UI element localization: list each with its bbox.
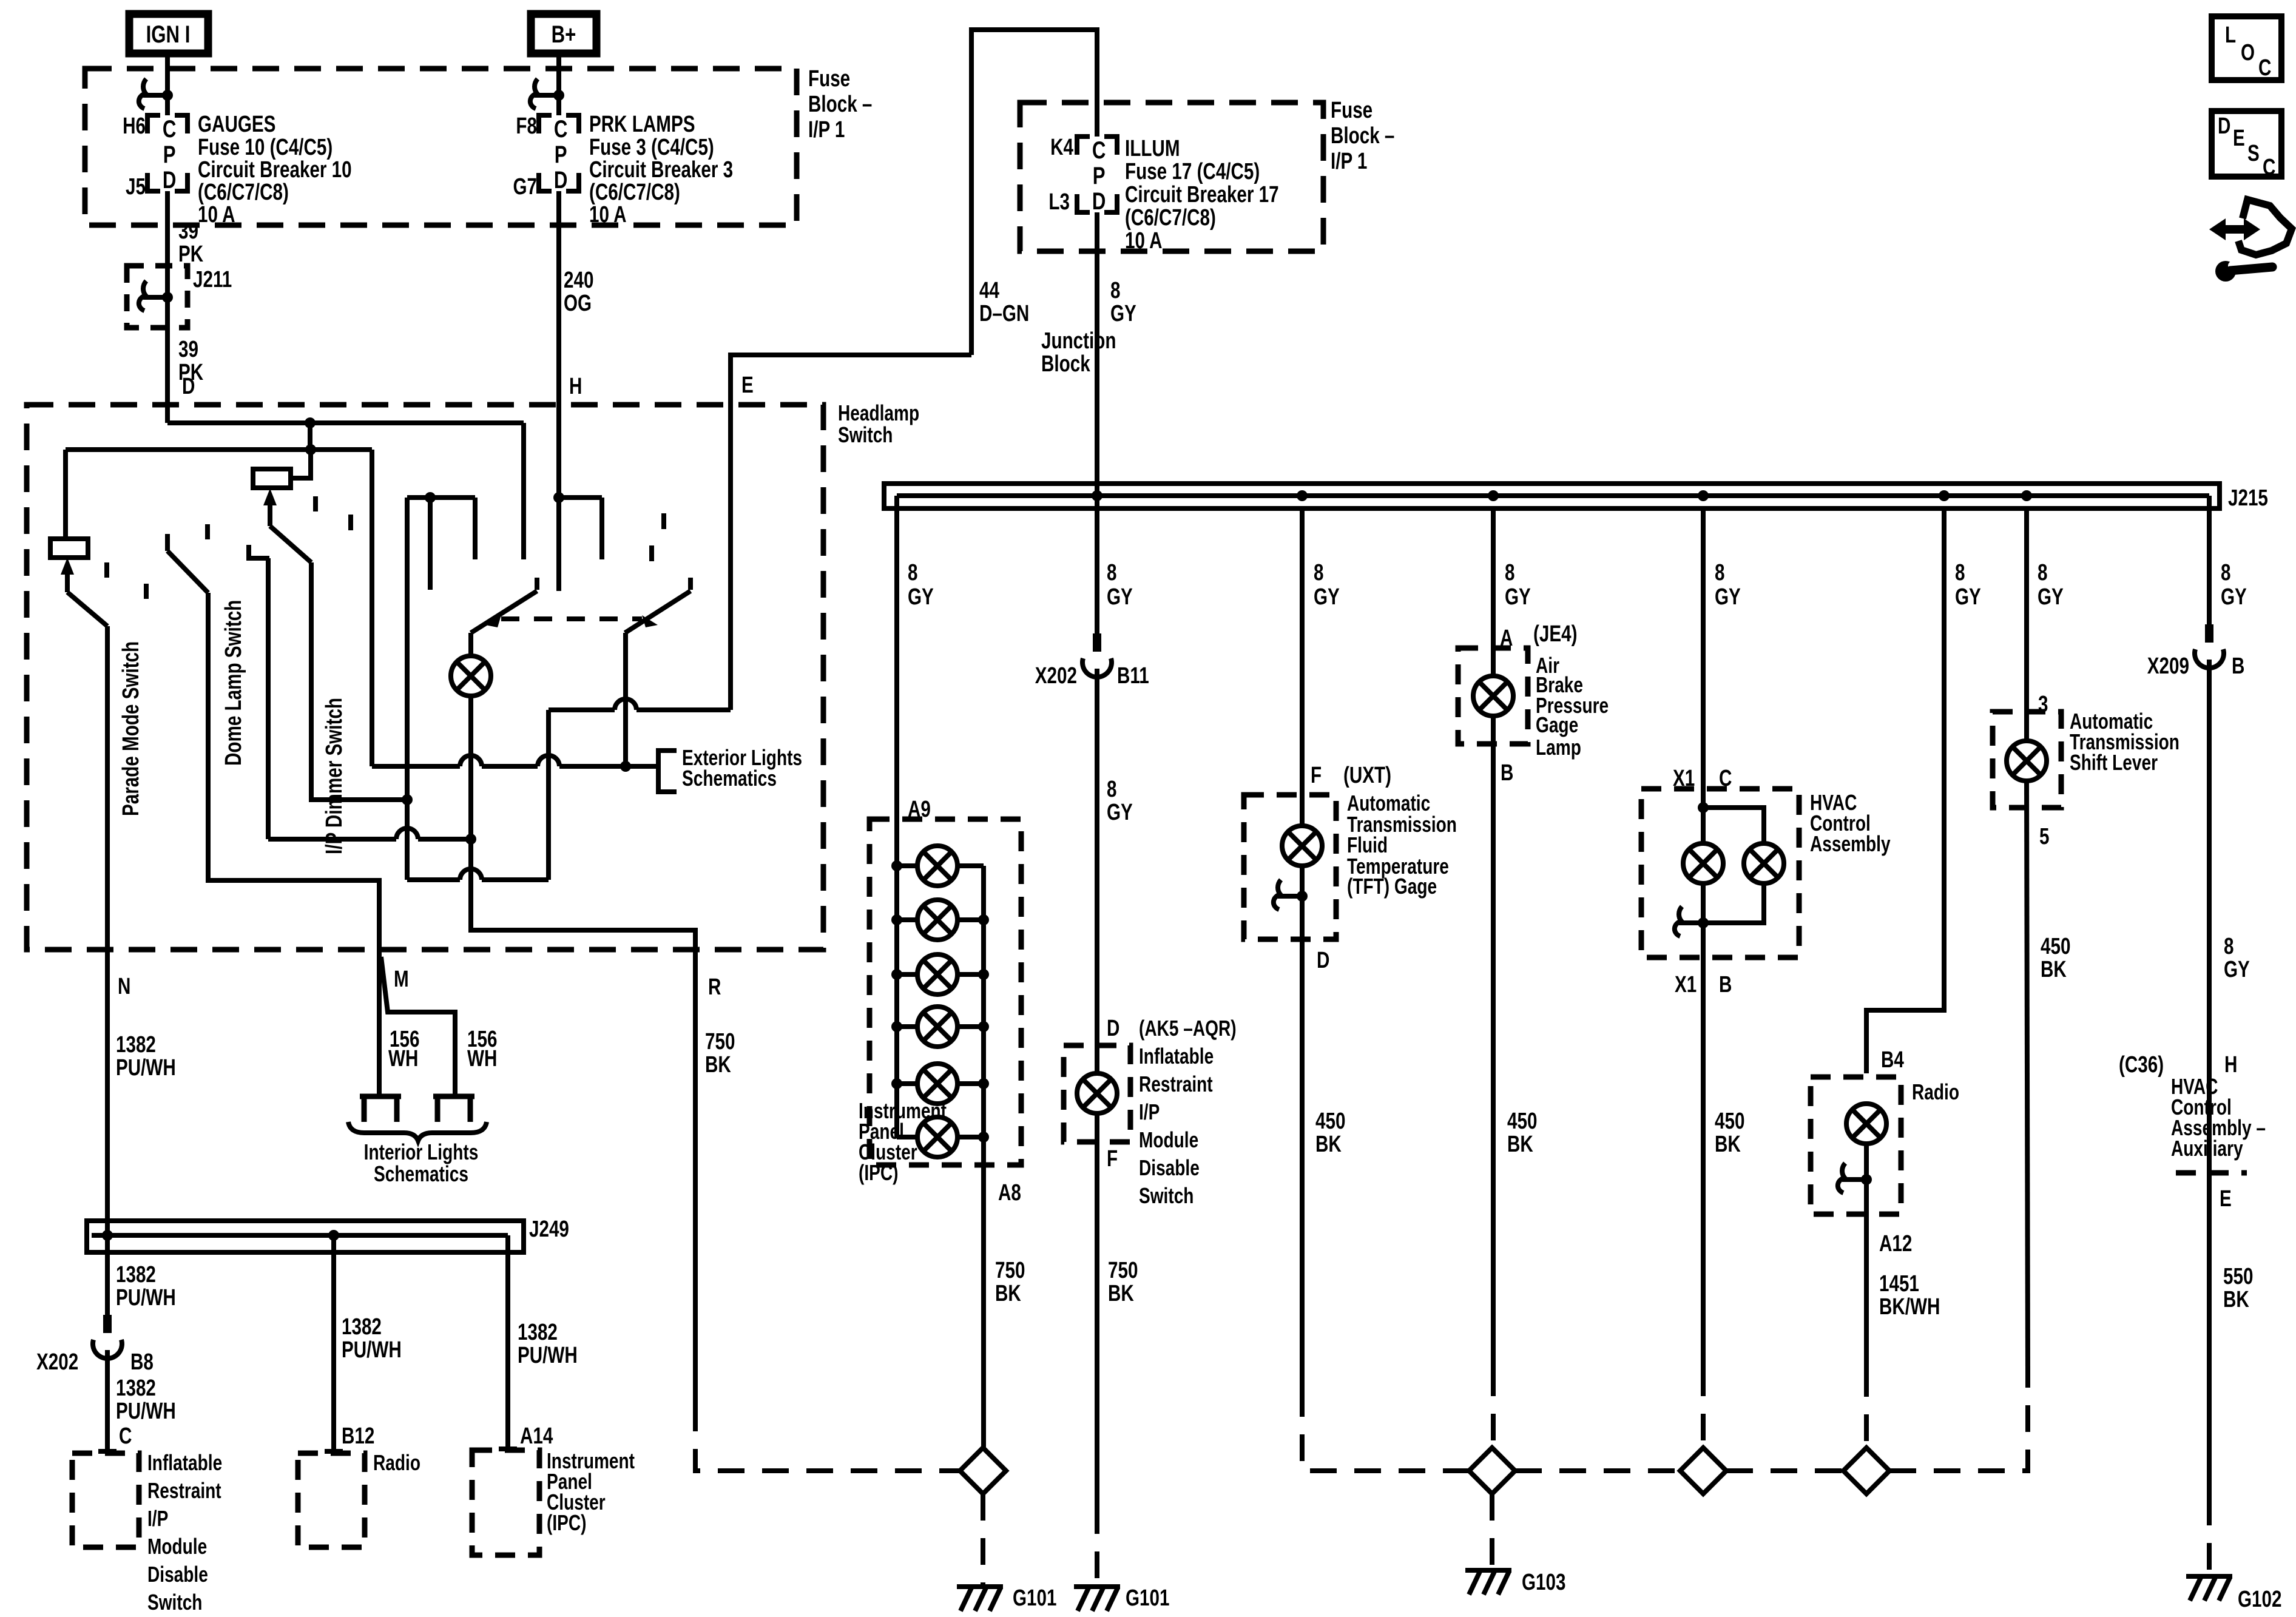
- svg-text:Schematics: Schematics: [374, 1162, 468, 1186]
- label 8 GY drop4: [1505, 560, 1531, 610]
- fuse ILLUM C/P/D terminals: [1077, 137, 1117, 215]
- breaker symbol radio: [1838, 1163, 1872, 1193]
- svg-text:PU/WH: PU/WH: [116, 1399, 176, 1424]
- parade wiper arrow: [61, 558, 107, 626]
- svg-text:Gage: Gage: [1536, 713, 1578, 737]
- wire shift lamp down: [2027, 781, 2028, 1370]
- svg-text:B: B: [1719, 972, 1732, 998]
- wire HVAC right lamp down: [1703, 883, 1764, 923]
- svg-text:BK: BK: [2041, 957, 2067, 982]
- svg-text:PRK LAMPS: PRK LAMPS: [589, 112, 695, 137]
- svg-text:X1: X1: [1675, 972, 1697, 998]
- svg-text:1382: 1382: [116, 1376, 156, 1401]
- svg-text:450: 450: [1315, 1109, 1345, 1134]
- svg-text:Disable: Disable: [1139, 1156, 1200, 1180]
- wire TFT dashed to splice: [1302, 1390, 1469, 1471]
- label 750 BK A8: [995, 1258, 1025, 1306]
- label 450 BK HVAC: [1715, 1109, 1744, 1157]
- icon repair arrow and wrench: [2209, 200, 2292, 282]
- label 8 GY drop5: [1715, 560, 1741, 610]
- label 1451 BK/WH: [1879, 1271, 1940, 1320]
- TFT gage box: [1244, 795, 1336, 939]
- svg-text:GY: GY: [1505, 584, 1531, 610]
- lamp shift lever: [2007, 741, 2047, 781]
- wire shift lever drop: [2024, 508, 2029, 741]
- label 8 GY drop1: [908, 560, 934, 610]
- label ILLUM fuse: [1125, 136, 1279, 254]
- dashed link HVAC splice to radio splice: [1726, 1468, 1843, 1473]
- svg-text:GY: GY: [908, 584, 934, 610]
- splice diamond G101: [960, 1448, 1006, 1494]
- wire TFT drop: [1300, 508, 1305, 826]
- svg-text:Disable: Disable: [147, 1562, 208, 1587]
- svg-text:BK: BK: [995, 1281, 1021, 1306]
- node rail junction: [305, 444, 316, 455]
- svg-text:GY: GY: [1955, 584, 1981, 610]
- label 8 GY drop2: [1107, 560, 1133, 610]
- svg-text:Restraint: Restraint: [1139, 1072, 1213, 1096]
- svg-text:D: D: [2218, 113, 2230, 139]
- svg-text:Module: Module: [147, 1534, 207, 1559]
- wire 44 D-GN to headlamp E: [731, 355, 971, 710]
- breaker symbol in J211: [139, 281, 173, 311]
- svg-text:I/P: I/P: [147, 1507, 168, 1531]
- svg-text:PU/WH: PU/WH: [518, 1343, 578, 1368]
- wire parade feed: [63, 450, 68, 539]
- label Inflatable Restraint I/P Module Disable Switch: [147, 1451, 222, 1615]
- lamp disable switch: [1077, 1073, 1117, 1113]
- power terminal IGN I: [129, 14, 208, 53]
- wire TFT lamp to D: [1300, 866, 1305, 1390]
- wire junction drop: [308, 423, 312, 450]
- svg-text:750: 750: [1108, 1258, 1138, 1283]
- LOC legend box: [2212, 16, 2281, 81]
- svg-text:G102: G102: [2238, 1587, 2281, 1612]
- label 450 BK air brake: [1507, 1109, 1537, 1157]
- svg-text:BK: BK: [1108, 1281, 1134, 1306]
- lamp IPC 6: [897, 1117, 989, 1157]
- label Automatic Transmission Shift Lever: [2070, 709, 2180, 775]
- ground G101 left: [957, 1585, 1056, 1611]
- connector J211: [127, 266, 232, 328]
- label Fuse Block - I/P 1 second: [1331, 98, 1394, 174]
- mechanical linkage dashed: [501, 616, 642, 621]
- svg-text:G101: G101: [1013, 1585, 1056, 1611]
- svg-text:Fuse 17 (C4/C5): Fuse 17 (C4/C5): [1125, 159, 1260, 184]
- label 8 GY B11: [1107, 777, 1133, 825]
- label 8 GY drop7: [2038, 560, 2064, 610]
- connector X202 B11: [1035, 633, 1149, 689]
- svg-text:450: 450: [2041, 934, 2070, 959]
- node N on J249: [102, 1230, 113, 1241]
- headlamp switch dashed box: [27, 405, 823, 950]
- svg-text:E: E: [2233, 126, 2245, 151]
- brace interior lights: [348, 1122, 487, 1141]
- svg-text:Assembly: Assembly: [1810, 832, 1891, 856]
- svg-text:Module: Module: [1139, 1128, 1198, 1152]
- wire radio lamp down: [1864, 1144, 1869, 1370]
- lamp HVAC left: [1683, 843, 1723, 883]
- svg-text:IGN I: IGN I: [146, 21, 191, 48]
- fuse block I/P 1 dashed box: [85, 69, 797, 225]
- label Headlamp Switch: [838, 401, 919, 447]
- dashed link radio splice to shift corner: [1889, 1370, 2028, 1471]
- svg-text:8: 8: [2221, 560, 2230, 586]
- wire second rail: [66, 447, 372, 452]
- linkage arrowheads: [485, 615, 658, 627]
- dashed link splice G103 to HVAC splice: [1515, 1468, 1680, 1473]
- svg-text:L: L: [2225, 22, 2236, 48]
- label 8 GY drop8: [2221, 560, 2247, 610]
- svg-text:B4: B4: [1881, 1047, 1904, 1073]
- lamp headlamp switch illumination: [451, 656, 491, 696]
- svg-text:H6: H6: [123, 113, 146, 139]
- wire A line to exterior lights: [372, 450, 656, 772]
- linkage dashes: [107, 496, 664, 599]
- radio box bottom left: [298, 1453, 365, 1547]
- svg-text:Parade Mode Switch: Parade Mode Switch: [118, 641, 144, 816]
- svg-text:L3: L3: [1048, 189, 1070, 215]
- svg-text:PU/WH: PU/WH: [116, 1055, 176, 1081]
- svg-text:8: 8: [908, 560, 917, 586]
- wire air brake drop: [1491, 508, 1496, 676]
- svg-text:Block –: Block –: [1331, 123, 1394, 149]
- splice diamond HVAC: [1680, 1448, 1726, 1494]
- svg-text:X202: X202: [1035, 663, 1077, 689]
- fuse PRK LAMPS C/P/D terminals: [539, 115, 579, 194]
- svg-text:8: 8: [1107, 560, 1116, 586]
- label 450 BK TFT: [1315, 1109, 1345, 1157]
- svg-text:BK: BK: [1315, 1132, 1342, 1157]
- svg-text:(IPC): (IPC): [859, 1161, 898, 1185]
- splice diamond G103: [1469, 1448, 1515, 1494]
- svg-text:X202: X202: [36, 1349, 78, 1375]
- svg-text:(TFT) Gage: (TFT) Gage: [1347, 874, 1437, 899]
- terminal tick A14: [499, 1447, 517, 1451]
- wire X202 B11 drop: [1095, 508, 1099, 633]
- svg-text:Fuse: Fuse: [1331, 98, 1373, 123]
- svg-text:8: 8: [1505, 560, 1514, 586]
- svg-text:PU/WH: PU/WH: [116, 1285, 176, 1311]
- svg-text:H: H: [2224, 1052, 2237, 1078]
- svg-text:Auxiliary: Auxiliary: [2171, 1136, 2243, 1161]
- svg-text:(C36): (C36): [2119, 1052, 2164, 1078]
- label 1382 PU/WH N upper: [116, 1032, 176, 1081]
- svg-text:M: M: [394, 967, 409, 992]
- svg-text:A8: A8: [998, 1180, 1021, 1206]
- svg-text:F8: F8: [516, 113, 537, 139]
- wire F dashed to ground: [1095, 1507, 1099, 1587]
- label 8 GY drop6: [1955, 560, 1981, 610]
- svg-text:F: F: [1107, 1146, 1118, 1172]
- svg-text:GY: GY: [1715, 584, 1741, 610]
- wire dimmer wiper drop: [311, 562, 407, 800]
- label 240 OG: [564, 268, 593, 316]
- wire radio drop with jog: [1866, 508, 1944, 1073]
- svg-text:Fuse: Fuse: [808, 66, 850, 92]
- wire D contact drop: [521, 423, 526, 559]
- terminal tick B12: [325, 1449, 343, 1454]
- wire M branch to interior lights: [381, 957, 455, 1096]
- svg-text:(UXT): (UXT): [1343, 763, 1391, 788]
- svg-text:Radio: Radio: [373, 1451, 420, 1475]
- svg-text:I/P 1: I/P 1: [808, 117, 845, 143]
- wire B line: [405, 498, 410, 880]
- svg-text:J249: J249: [529, 1217, 569, 1242]
- svg-text:B: B: [1501, 760, 1513, 786]
- svg-text:BK: BK: [705, 1052, 731, 1078]
- connector interior lights left: [360, 1096, 401, 1122]
- label 44 D-GN: [979, 278, 1029, 326]
- off-page bracket exterior lights: [658, 751, 677, 792]
- label 550 BK: [2223, 1264, 2253, 1312]
- lamp radio: [1846, 1104, 1886, 1144]
- svg-text:G103: G103: [1522, 1570, 1565, 1595]
- wire X209 to HVAC aux: [2207, 660, 2212, 1173]
- svg-text:450: 450: [1715, 1109, 1744, 1134]
- breaker symbol TFT: [1274, 880, 1308, 910]
- wire B12 drop: [331, 1235, 336, 1451]
- ground G103: [1465, 1570, 1565, 1595]
- radio box: [1811, 1077, 1901, 1214]
- dome lamp contact: [249, 545, 269, 558]
- terminal tick C: [98, 1449, 116, 1454]
- fuse GAUGES C/P/D terminals: [147, 115, 187, 194]
- ground G102: [2186, 1576, 2281, 1612]
- wire HVAC right branch: [1703, 808, 1764, 843]
- wire N drop: [105, 626, 110, 1315]
- wire B11 to disable switch: [1095, 669, 1099, 1073]
- wire dashed to ground G102: [2207, 1499, 2212, 1576]
- svg-text:BK: BK: [2223, 1287, 2249, 1312]
- svg-text:B+: B+: [552, 21, 576, 48]
- svg-text:B11: B11: [1117, 663, 1149, 689]
- wire IPC A9 drop: [894, 496, 899, 1137]
- svg-text:1382: 1382: [116, 1262, 156, 1288]
- svg-text:G7: G7: [513, 174, 537, 200]
- svg-text:Lamp: Lamp: [1536, 735, 1581, 760]
- lamp IPC 3: [891, 954, 989, 994]
- wire F to ground: [1095, 1113, 1099, 1507]
- svg-text:(IPC): (IPC): [547, 1511, 586, 1535]
- svg-text:O: O: [2241, 40, 2255, 66]
- svg-text:Junction: Junction: [1041, 328, 1116, 354]
- label Interior Lights Schematics: [364, 1140, 479, 1186]
- wire splice to ground G103: [1490, 1494, 1494, 1570]
- svg-text:8: 8: [1955, 560, 1965, 586]
- svg-text:Radio: Radio: [1912, 1080, 1959, 1104]
- inflatable restraint disable switch box mid: [1064, 1045, 1130, 1142]
- lamp IPC 4: [891, 1007, 989, 1047]
- label 39 PK lower: [178, 337, 204, 385]
- label 1382 PU/WH N lower: [116, 1262, 176, 1311]
- svg-text:B12: B12: [342, 1423, 374, 1449]
- label R 750 BK: [705, 1029, 735, 1078]
- svg-text:450: 450: [1507, 1109, 1537, 1134]
- dimmer wiper arrow: [263, 488, 311, 562]
- wire X209 drop: [2207, 496, 2212, 624]
- svg-text:1382: 1382: [116, 1032, 156, 1058]
- svg-text:K4: K4: [1050, 135, 1073, 160]
- svg-text:PK: PK: [178, 241, 204, 267]
- label (AK5 -AQR) Inflatable Restraint I/P Module Disable Switch: [1139, 1016, 1237, 1208]
- svg-text:WH: WH: [467, 1046, 497, 1072]
- svg-text:H: H: [569, 374, 582, 399]
- wire dome lamp right: [266, 558, 271, 839]
- shift lever box: [1993, 712, 2061, 808]
- svg-text:8: 8: [2038, 560, 2047, 586]
- label PRK LAMPS fuse: [589, 112, 733, 228]
- lamp IPC 5: [891, 1064, 989, 1104]
- svg-text:R: R: [708, 974, 721, 1000]
- lamp IPC 1: [891, 846, 984, 886]
- wire 550 BK: [2207, 1173, 2212, 1499]
- svg-text:Dome Lamp Switch: Dome Lamp Switch: [221, 600, 246, 766]
- svg-text:D: D: [1317, 948, 1329, 973]
- svg-text:8: 8: [1107, 777, 1116, 802]
- ground G101 right: [1074, 1585, 1169, 1611]
- wire HVAC drop: [1701, 508, 1706, 843]
- terminal X1 C HVAC: [1673, 766, 1732, 791]
- svg-text:BK: BK: [1715, 1132, 1741, 1157]
- svg-text:5: 5: [2039, 824, 2049, 849]
- breaker symbol HVAC: [1675, 906, 1709, 936]
- svg-text:A12: A12: [1879, 1231, 1912, 1257]
- resistor I/P dimmer: [253, 469, 291, 488]
- svg-text:44: 44: [979, 278, 999, 303]
- svg-text:8: 8: [2224, 934, 2234, 959]
- node D junction: [305, 417, 316, 428]
- svg-text:C: C: [119, 1423, 132, 1449]
- label Junction Block: [1041, 328, 1116, 377]
- label 8 GY drop3: [1314, 560, 1340, 610]
- svg-text:Switch: Switch: [147, 1590, 202, 1615]
- wire dome right to lamp node with hop: [268, 828, 476, 845]
- label Instrument Panel Cluster IPC: [547, 1449, 635, 1535]
- label Instrument Panel Cluster (IPC): [859, 1099, 947, 1185]
- svg-text:Switch: Switch: [1139, 1184, 1194, 1208]
- svg-text:GY: GY: [2224, 957, 2250, 982]
- svg-text:C: C: [2263, 155, 2275, 180]
- svg-text:S: S: [2247, 141, 2260, 166]
- label 750 BK F: [1108, 1258, 1138, 1306]
- svg-text:8: 8: [1715, 560, 1724, 586]
- wire 240 OG: [556, 191, 561, 498]
- label 1382 PU/WH C: [116, 1376, 176, 1424]
- svg-text:GY: GY: [1107, 800, 1133, 825]
- svg-text:GY: GY: [1107, 584, 1133, 610]
- svg-text:D: D: [182, 374, 195, 399]
- bus J215: [884, 484, 2268, 511]
- instrument panel cluster IPC box: [869, 819, 1021, 1165]
- wire splice to ground G101: [981, 1494, 985, 1587]
- svg-text:Block –: Block –: [808, 92, 872, 117]
- svg-text:Interior Lights: Interior Lights: [364, 1140, 479, 1164]
- bus J249: [87, 1217, 569, 1252]
- lamp air brake: [1473, 676, 1513, 716]
- svg-text:8: 8: [1110, 278, 1120, 303]
- svg-text:WH: WH: [388, 1046, 418, 1072]
- svg-text:J5: J5: [126, 174, 146, 200]
- svg-text:I/P 1: I/P 1: [1331, 149, 1367, 174]
- svg-text:GY: GY: [2038, 584, 2064, 610]
- DESC legend box: [2212, 111, 2281, 180]
- svg-text:Headlamp: Headlamp: [838, 401, 919, 425]
- node dimmer to B line: [402, 794, 413, 805]
- svg-text:X209: X209: [2147, 653, 2189, 679]
- air brake pressure gage lamp box: [1458, 648, 1528, 744]
- svg-text:Inflatable: Inflatable: [1139, 1044, 1214, 1068]
- circuit breaker symbol F8: [530, 79, 564, 109]
- svg-text:550: 550: [2223, 1264, 2253, 1289]
- wire A14 drop: [505, 1235, 510, 1449]
- label HVAC Control Assembly Auxiliary: [2171, 1075, 2266, 1161]
- svg-text:(AK5 –AQR): (AK5 –AQR): [1139, 1016, 1237, 1041]
- label 8 GY aux: [2224, 934, 2250, 982]
- wire 8 GY from ILLUM fuse to junction block: [1095, 212, 1099, 633]
- svg-text:750: 750: [995, 1258, 1025, 1283]
- label 8 GY: [1110, 278, 1136, 326]
- splice diamond radio: [1843, 1448, 1889, 1494]
- label Fuse Block - I/P 1: [808, 66, 872, 143]
- svg-text:Restraint: Restraint: [147, 1479, 221, 1503]
- label 1382 PU/WH B12: [342, 1314, 402, 1363]
- instrument panel cluster box bottom: [472, 1450, 539, 1555]
- svg-text:BK/WH: BK/WH: [1879, 1294, 1940, 1320]
- svg-text:BK: BK: [1507, 1132, 1533, 1157]
- svg-text:Block: Block: [1041, 351, 1090, 377]
- svg-text:PU/WH: PU/WH: [342, 1337, 402, 1363]
- svg-text:I/P: I/P: [1139, 1100, 1160, 1124]
- wire IGN I to fuse: [165, 53, 170, 115]
- svg-text:E: E: [741, 373, 754, 398]
- svg-text:A14: A14: [520, 1423, 553, 1449]
- svg-text:Inflatable: Inflatable: [147, 1451, 222, 1475]
- wire dimmer resistor tap: [291, 450, 311, 478]
- wire A8: [981, 866, 986, 1448]
- lamp HVAC right: [1744, 843, 1784, 883]
- wire radio dashed to splice: [1864, 1370, 1869, 1448]
- lamp IPC 2: [891, 900, 989, 940]
- connector X209 B: [2147, 624, 2245, 679]
- switch blade right: [625, 578, 690, 766]
- svg-text:240: 240: [564, 268, 593, 293]
- label Automatic Transmission Fluid Temperature (TFT) Gage: [1347, 791, 1457, 899]
- fuse block I/P 1 second dashed box: [1020, 103, 1323, 251]
- wire 39 PK from fuse to headlamp switch: [165, 191, 170, 423]
- svg-text:I/P Dimmer Switch: I/P Dimmer Switch: [322, 698, 347, 854]
- label 156 WH right: [467, 1027, 497, 1072]
- svg-text:1451: 1451: [1879, 1271, 1919, 1297]
- svg-text:GY: GY: [2221, 584, 2247, 610]
- svg-text:G101: G101: [1126, 1585, 1169, 1611]
- label 1382 PU/WH A14: [518, 1320, 578, 1368]
- svg-text:Switch: Switch: [838, 423, 893, 447]
- svg-text:39: 39: [178, 218, 198, 244]
- connector X202 B8: [36, 1315, 154, 1375]
- svg-text:OG: OG: [564, 291, 592, 316]
- wire B8 to C: [105, 1350, 110, 1451]
- svg-text:J215: J215: [2228, 485, 2268, 511]
- HVAC control assembly box: [1641, 789, 1799, 957]
- wire R dashed to splice: [695, 1405, 960, 1471]
- resistor parade mode: [50, 539, 88, 558]
- dome lamp switch blade: [167, 534, 208, 593]
- svg-text:F: F: [1311, 763, 1322, 788]
- label 450 BK shift: [2041, 934, 2070, 982]
- wire lamp output to R: [471, 696, 695, 1405]
- lamp TFT: [1282, 826, 1322, 866]
